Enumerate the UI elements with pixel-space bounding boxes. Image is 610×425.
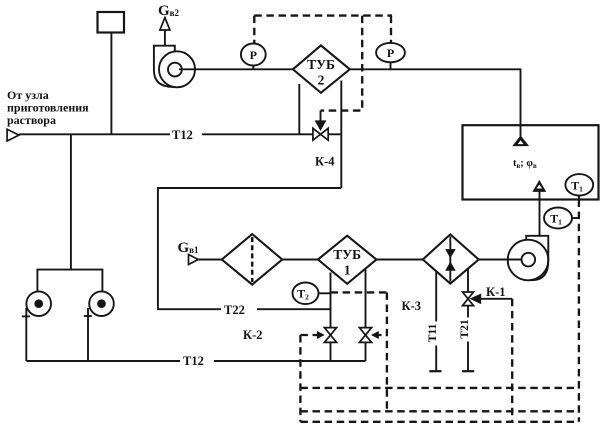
- filter: [222, 234, 282, 285]
- wire: TUB2 left drop: [298, 84, 300, 134]
- svg-text:К-1: К-1: [486, 285, 505, 299]
- signal: K-2 line: [300, 334, 317, 336]
- node: inlet arrow "От узла": [7, 129, 19, 141]
- signal: bus line 1: [300, 387, 579, 389]
- signal: arrow into K-2b: [374, 334, 387, 336]
- expansion tank box: [98, 12, 125, 33]
- sensor P1: [241, 44, 266, 70]
- signal: bus line 3: [300, 421, 579, 423]
- wire: heater to fan F1: [479, 259, 522, 261]
- fan F1 (supply): [508, 236, 549, 280]
- wire: T12 return line: [26, 360, 365, 362]
- wire: pump P2 outlet: [87, 308, 89, 361]
- fan F2 (exhaust): [154, 46, 195, 88]
- svg-text:ТУБ: ТУБ: [307, 57, 335, 72]
- wire: T12 supply line: [19, 133, 313, 135]
- valve K-1: [463, 292, 474, 306]
- node: Gв1 arrow: [189, 255, 199, 265]
- wire: K-4 right stub: [328, 133, 341, 135]
- svg-text:Т12: Т12: [183, 354, 204, 368]
- wire: TUB2 to room corner: [350, 69, 521, 137]
- wire: Gв2 exhaust stub: [164, 30, 166, 46]
- signal: branch to K-4: [321, 16, 363, 111]
- label T22: [221, 302, 257, 317]
- sensor T1 duct: [544, 208, 579, 229]
- svg-text:Р: Р: [250, 48, 257, 62]
- wire: TUB1 left drop: [330, 273, 332, 328]
- label T12 top: [170, 127, 202, 142]
- heater coil: [423, 234, 479, 283]
- svg-text:Т21: Т21: [459, 319, 471, 338]
- signal: to P1: [253, 16, 255, 44]
- signal: T1 riser: [578, 200, 580, 422]
- actuator arrow K-4: [320, 111, 322, 122]
- svg-text:1: 1: [344, 263, 351, 278]
- mixer TUB1: [318, 236, 376, 284]
- wire: tank drop to T12: [110, 33, 112, 135]
- svg-text:К-4: К-4: [315, 155, 335, 169]
- wire: heater drop to K-1: [467, 269, 469, 293]
- svg-text:2: 2: [318, 73, 325, 88]
- wire: F1 riser to room: [539, 191, 541, 236]
- wire: pump P1 outlet: [25, 308, 27, 361]
- wire: pump manifold: [37, 270, 102, 292]
- svg-text:Т12: Т12: [172, 128, 193, 142]
- signal: to P2: [390, 16, 392, 43]
- svg-text:раствора: раствора: [7, 113, 56, 127]
- actuator arrow K-1: [472, 295, 480, 303]
- pump P1: [26, 291, 51, 316]
- svg-text:К-3: К-3: [402, 299, 421, 313]
- label T11: [427, 322, 442, 346]
- pumps header: [70, 134, 72, 269]
- valve K-4: [313, 128, 328, 140]
- label T21: [459, 318, 474, 342]
- svg-text:Т22: Т22: [224, 303, 245, 317]
- signal: T2 to K-3 riser: [331, 291, 387, 293]
- valve K-2a: [324, 328, 336, 343]
- signal: K-1 riser: [511, 299, 513, 421]
- dashed control lines: [254, 16, 579, 422]
- node: room supply arrow: [534, 182, 545, 191]
- room box: [463, 125, 599, 199]
- sensor T1 room: [565, 174, 593, 199]
- wire: TUB1 to heater: [376, 259, 422, 261]
- mixer TUB2: [293, 45, 350, 92]
- wire: heater drop T11: [435, 272, 437, 371]
- wire: Gв1 to filter: [198, 259, 222, 261]
- svg-text:ТУБ: ТУБ: [333, 247, 361, 262]
- wire: T22 return header: [158, 188, 341, 309]
- wire: K-2b drop: [365, 342, 367, 361]
- sensor T2: [293, 283, 331, 305]
- signal: K-2 riser: [299, 335, 301, 422]
- svg-text:Т11: Т11: [427, 323, 439, 342]
- node: Gв2 arrow: [160, 18, 170, 31]
- signal: P bus top: [254, 14, 392, 16]
- sensor P2: [376, 43, 405, 69]
- wire: TUB1 right drop: [365, 270, 367, 328]
- wire: T21 drop: [467, 306, 469, 372]
- wire: fan F2 to TUB2: [179, 68, 293, 70]
- svg-text:К-2: К-2: [243, 328, 262, 342]
- actuator arrow K-2b: [371, 331, 379, 339]
- pump P2: [89, 291, 114, 316]
- svg-text:Р: Р: [387, 46, 394, 60]
- valve K-2b: [359, 328, 371, 343]
- node: room inlet diffuser: [514, 137, 527, 145]
- actuator arrow K-2a: [317, 331, 325, 339]
- signal: bus line 2: [300, 410, 579, 412]
- label T12 bottom: [180, 353, 214, 368]
- wire: K-2a drop: [330, 342, 332, 361]
- wire: TUB2 right drop: [340, 81, 342, 189]
- wire: filter to TUB1: [282, 259, 318, 261]
